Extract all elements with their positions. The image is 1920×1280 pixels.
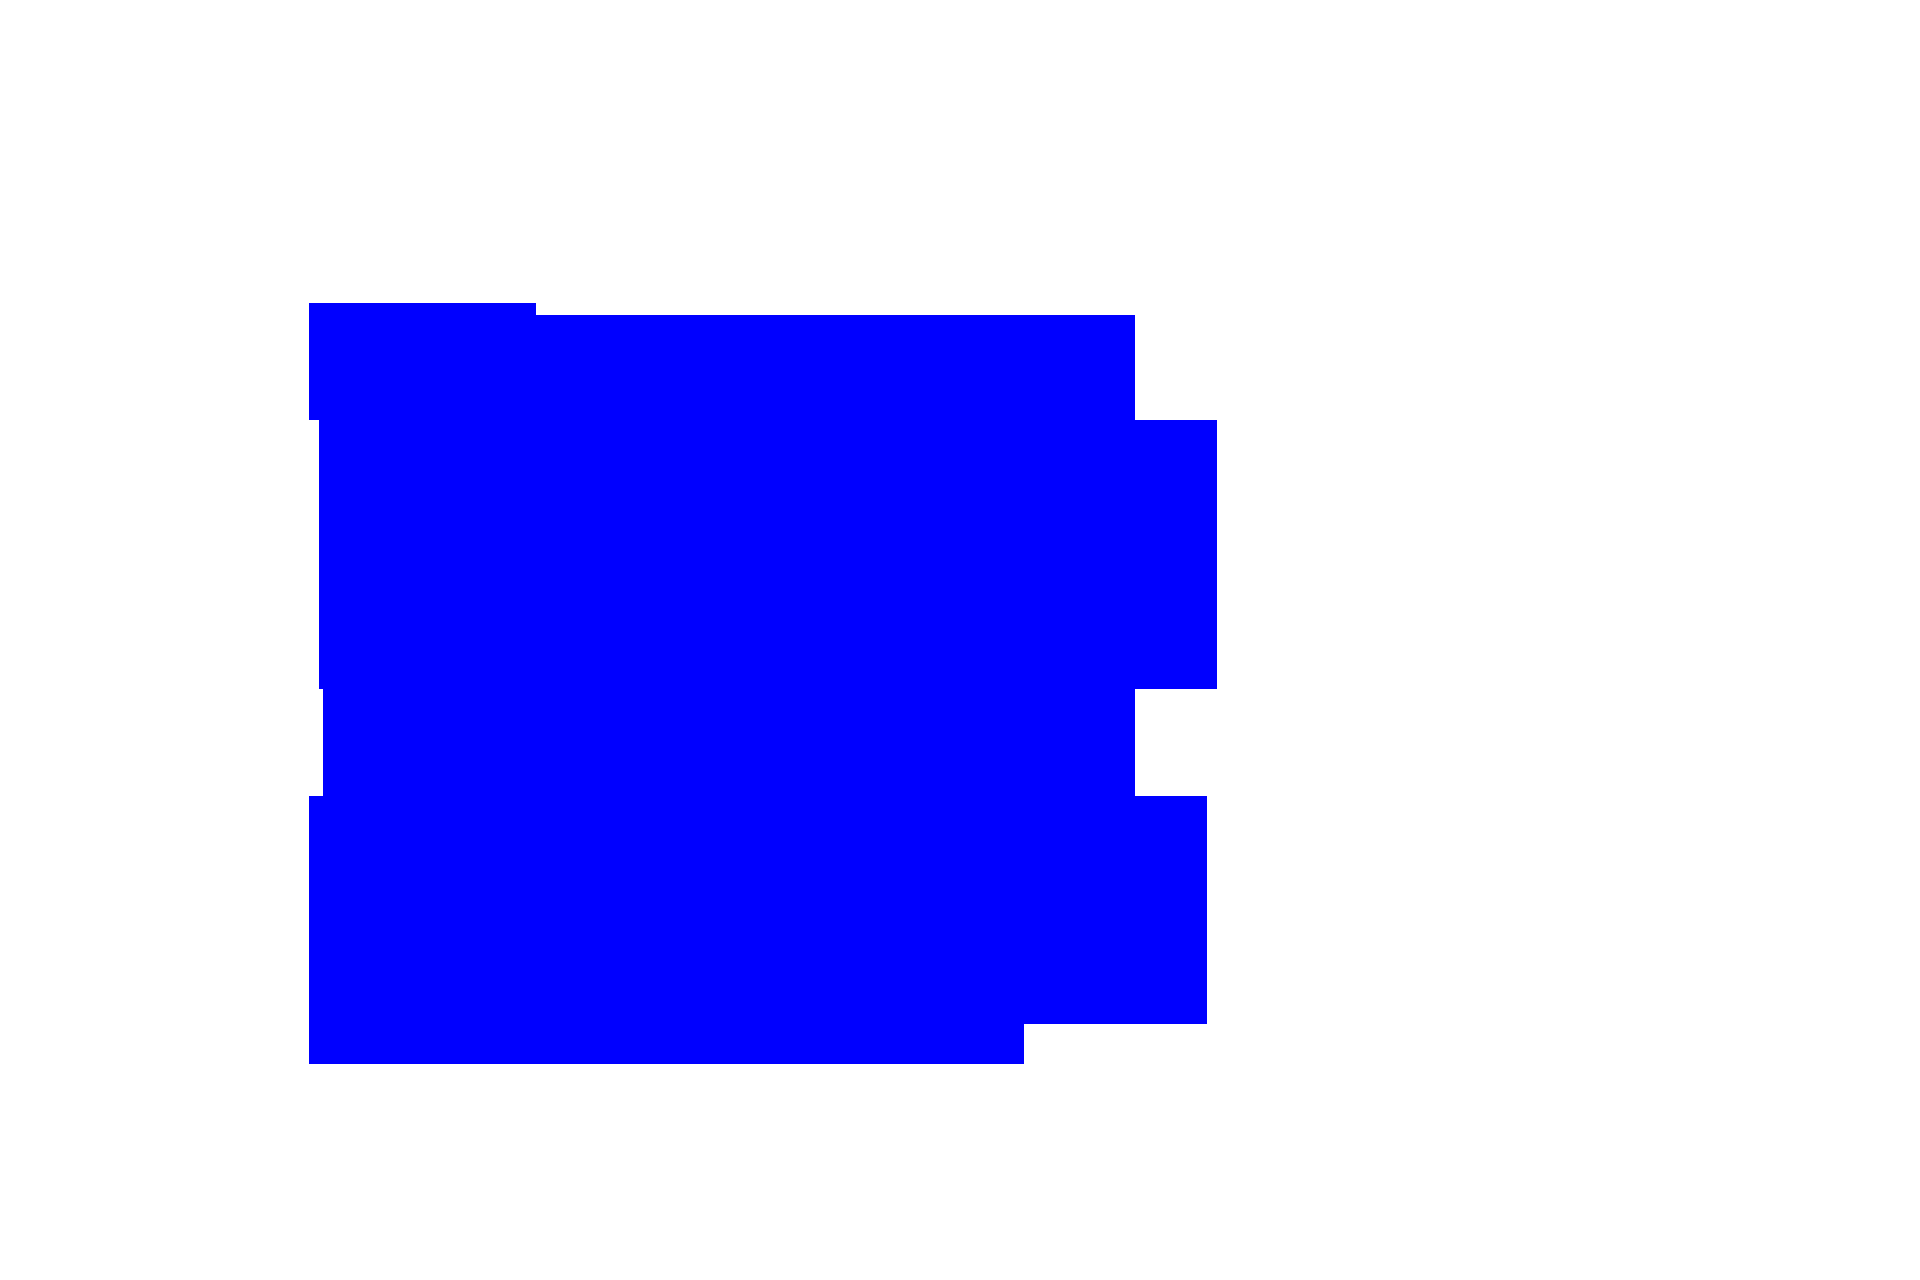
blue block R3 (wide middle) — [319, 420, 1217, 689]
blue block R4 (bottom-left) — [309, 796, 1024, 1064]
blue block R1 (top-left) — [309, 303, 536, 420]
blue block R5 (bottom-right) — [560, 796, 1207, 1024]
blue block R2 (central tall) — [323, 315, 1135, 796]
